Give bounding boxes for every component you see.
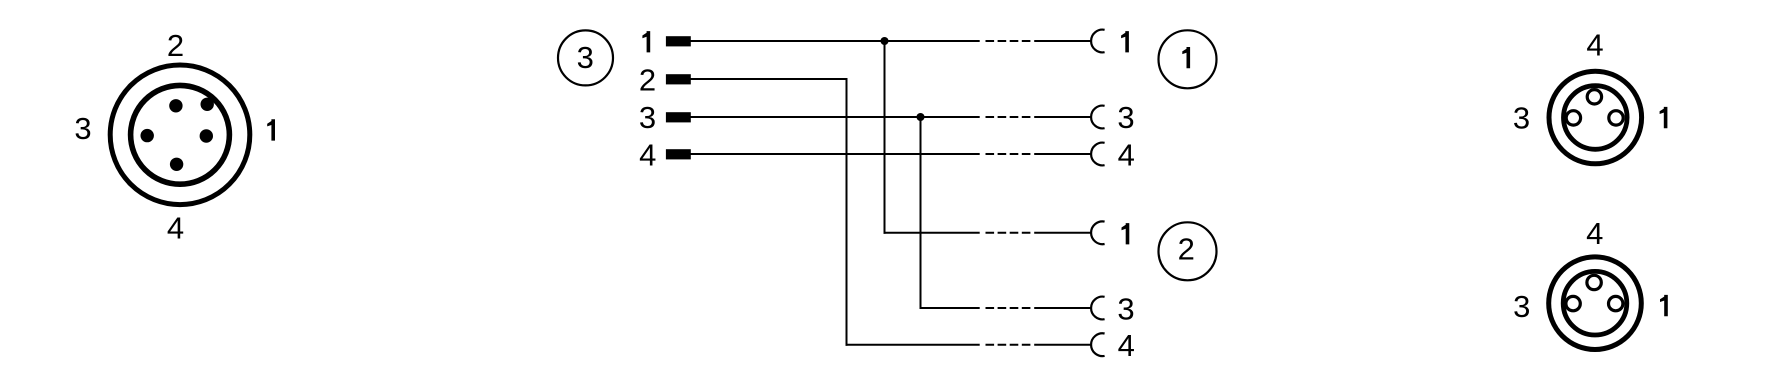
badge 1 digit [1182,47,1190,68]
wire branch2 pin1 solid end [1034,232,1091,234]
wire core1 solid end [1034,40,1091,42]
socket label branch2 pin1 [1122,223,1130,244]
right A pin 3 socket [1566,111,1580,125]
svg-text:2: 2 [639,63,656,98]
socket arc branch2 pin3 [1091,297,1105,320]
branch 2 circle badge [1159,222,1217,280]
wire core3 dashed [986,116,1031,118]
wire branch2 pin1 solid [884,232,980,234]
socket label branch1 pin1 [1121,31,1129,52]
wire branch2 pin1 dashed [986,232,1031,234]
socket arc branch1 pin4 [1091,143,1105,166]
socket arc branch1 pin3 [1091,106,1105,129]
right A label 1 [1660,107,1668,128]
wire vertical from core3 junction [920,117,922,309]
socket arc branch2 pin1 [1091,221,1105,244]
socket arc branch2 pin4 [1091,333,1105,356]
connector face right A inner ring [1564,86,1628,150]
svg-text:4: 4 [1118,328,1135,363]
wire core3 solid end [1034,116,1091,118]
pin 1 dot [200,129,213,142]
right B pin 1 socket [1609,296,1623,310]
svg-text:2: 2 [167,28,184,63]
connector face right A outer ring [1549,71,1642,164]
terminal pin 1 [666,36,691,46]
svg-text:4: 4 [1586,216,1603,251]
wire vertical from core2 [846,78,848,346]
connector face left M12 outer ring [110,65,250,205]
svg-text:3: 3 [639,100,656,135]
wire branch2 pin4 solid [846,344,980,346]
terminal pin 2 [666,74,691,84]
wire branch2 pin3 solid [920,307,980,309]
svg-text:3: 3 [1513,101,1530,136]
right A pin 4 socket [1587,90,1601,104]
svg-text:3: 3 [74,111,91,146]
label pin 1 [267,119,275,140]
wire branch2 pin3 solid end [1034,307,1091,309]
pin 4 dot [170,158,183,171]
svg-text:4: 4 [167,211,184,246]
coding notch dot [201,98,214,111]
wire core1 dashed [986,40,1031,42]
wire core2 solid [691,78,848,80]
terminal pin 3 [666,112,691,122]
wire branch2 pin3 dashed [986,307,1031,309]
terminal pin 4 [666,149,691,159]
wire core1 solid [691,40,980,42]
svg-text:4: 4 [1118,138,1135,173]
wire branch2 pin4 solid end [1034,344,1091,346]
right A pin 1 socket [1609,111,1623,125]
wire core3 solid [691,116,980,118]
pin 3 dot [141,129,154,142]
right B label 1 [1660,295,1668,316]
wire vertical from core1 junction [884,41,886,234]
connector face left M12 inner ring [131,85,230,184]
wire core4 solid [691,153,980,155]
junction dot core3 [917,113,925,121]
junction dot core1 [881,37,889,45]
wire core4 solid end [1034,153,1091,155]
svg-text:3: 3 [1117,100,1134,135]
svg-text:3: 3 [577,40,594,75]
branch 1 circle badge [1159,30,1217,88]
pin 2 dot [169,99,182,112]
connector 3 circle badge [558,30,613,85]
right B pin 3 socket [1566,296,1580,310]
core label 1 [642,31,650,52]
svg-text:2: 2 [1178,231,1195,266]
right B pin 4 socket [1587,275,1601,289]
svg-text:4: 4 [639,138,656,173]
svg-text:3: 3 [1117,291,1134,326]
svg-text:4: 4 [1586,28,1603,63]
connector face right B outer ring [1549,257,1642,350]
wire branch2 pin4 dashed [986,344,1031,346]
wire core4 dashed [986,153,1031,155]
connector face right B inner ring [1563,271,1627,335]
socket arc branch1 pin1 [1091,30,1105,53]
svg-text:3: 3 [1513,289,1530,324]
